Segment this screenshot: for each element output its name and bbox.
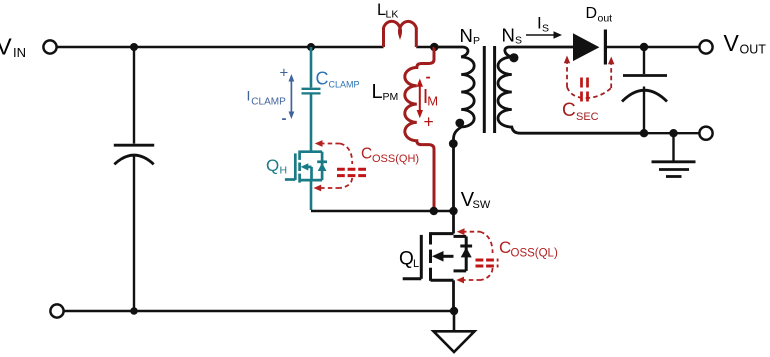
ground primary lead	[453, 311, 456, 331]
svg-text:H: H	[280, 165, 288, 177]
svg-text:-: -	[426, 69, 431, 86]
label CCLAMP (blue)	[316, 69, 360, 90]
QH body diode cathode bar	[317, 160, 327, 163]
QH source horizontal	[300, 179, 323, 182]
QL body diode triangle	[461, 247, 472, 257]
svg-text:Q: Q	[266, 156, 279, 175]
QH body arrow head	[301, 163, 309, 170]
svg-text:Q: Q	[399, 249, 414, 270]
QH body diode triangle	[318, 163, 327, 171]
ground primary (open triangle)	[434, 331, 475, 352]
COSS(QH) top dashed line	[320, 143, 340, 145]
COSS(QL) top arrow head	[457, 228, 465, 235]
node junction dot NP bottom	[449, 139, 458, 148]
node junction dot bottom input cap	[130, 307, 138, 315]
QL body arrow head	[432, 251, 444, 262]
QL diode branch bottom	[454, 269, 467, 272]
wire QL source lead	[452, 280, 455, 311]
current ICLAMP arrow (blue double headed)	[289, 74, 295, 119]
transistor QH (teal mosfet)	[285, 151, 327, 183]
CSEC right arrow line	[610, 63, 612, 88]
capacitor COUT top plate	[623, 74, 667, 77]
QL gate bar	[420, 235, 423, 279]
capacitance CSEC dashed arrows (dark red)	[567, 62, 611, 98]
svg-text:SEC: SEC	[576, 111, 599, 123]
COSS(QH) top arrow head	[315, 140, 323, 147]
svg-text:M: M	[427, 94, 438, 109]
diode Dout cathode bar	[604, 30, 607, 65]
svg-text:SW: SW	[473, 199, 491, 211]
capacitor CCLAMP plates (teal)	[302, 89, 321, 94]
node junction dot VSW	[449, 207, 457, 215]
inductor LLK coil	[384, 21, 417, 47]
CSEC left arrow line	[566, 62, 568, 87]
wire clamp branch top (teal)	[310, 47, 313, 88]
COSS(QH) bottom dashed line	[320, 187, 340, 189]
label NS	[502, 24, 523, 46]
svg-text:+: +	[424, 112, 434, 132]
svg-text:C: C	[499, 238, 511, 257]
svg-text:OSS(QH): OSS(QH)	[372, 153, 419, 165]
wire top rail after LLK coil	[416, 46, 434, 48]
capacitor CIN bottom lead	[133, 156, 135, 312]
transformer NS winding	[498, 47, 644, 133]
label NP	[460, 25, 481, 47]
wire bottom rail	[64, 310, 455, 312]
svg-text:V: V	[724, 30, 740, 56]
wire Dout to output node	[605, 46, 699, 48]
svg-text:L: L	[372, 81, 383, 103]
QH body arrow line	[304, 166, 312, 169]
label CSEC	[562, 100, 599, 123]
terminal VOUT top (open circle)	[699, 40, 712, 53]
node junction dot QL source	[450, 307, 458, 315]
capacitor COUT bottom lead	[643, 87, 645, 134]
svg-text:LK: LK	[386, 9, 399, 21]
diode Dout label	[586, 5, 613, 25]
ground secondary lead	[672, 133, 674, 161]
svg-text:CLAMP: CLAMP	[329, 80, 360, 90]
svg-text:OUT: OUT	[740, 42, 767, 56]
svg-text:+: +	[280, 64, 289, 81]
node junction dot LLK/LPM/NP	[430, 43, 439, 52]
current IM arrow (double headed)	[417, 79, 423, 119]
COSS(QL) top arc	[480, 232, 493, 253]
transformer NP winding	[435, 47, 475, 211]
svg-text:C: C	[361, 146, 372, 163]
label VSW	[461, 189, 491, 211]
svg-text:OSS(QL): OSS(QL)	[511, 248, 558, 260]
svg-text:V: V	[0, 34, 12, 60]
svg-text:-: -	[282, 110, 287, 127]
capacitor COUT top lead	[643, 47, 645, 74]
QL diode branch top	[454, 235, 467, 238]
svg-text:N: N	[460, 25, 473, 46]
transformer NP phase dot	[455, 119, 464, 128]
transistor QL label	[399, 249, 419, 271]
transformer core line 1	[483, 46, 486, 133]
QH channel segments	[298, 151, 301, 160]
svg-text:IN: IN	[13, 45, 26, 60]
QL body diode cathode bar	[460, 245, 472, 248]
CSEC left arrow head	[564, 56, 570, 64]
QH drain horizontal	[300, 150, 323, 153]
current IS label	[537, 13, 549, 34]
node junction dot secondary ground	[669, 129, 677, 137]
wire VSW rail	[311, 210, 454, 213]
transformer core line 2	[493, 46, 496, 133]
svg-text:N: N	[502, 24, 515, 45]
transistor QH label (teal)	[266, 156, 287, 177]
terminal VIN (open circle)	[43, 40, 56, 53]
ground secondary (3 bars)	[652, 162, 696, 177]
QH body connector	[310, 167, 313, 180]
QL drain horizontal	[431, 232, 454, 235]
wire QH source down (teal)	[310, 180, 313, 210]
diode Dout triangle	[573, 33, 599, 61]
QH gate lead	[285, 178, 295, 181]
QH body diode line	[321, 152, 324, 180]
COSS(QL) bottom arc	[481, 268, 493, 280]
svg-text:D: D	[586, 5, 598, 22]
QL gate lead	[403, 277, 422, 280]
current IS arrow	[526, 31, 562, 39]
inductor LLK label	[377, 1, 398, 21]
COSS(QH) top arc	[340, 144, 352, 165]
wire CCLAMP to QH drain (teal)	[310, 95, 313, 152]
node junction dot input cap	[130, 43, 138, 51]
label COSS(QL)	[499, 238, 558, 260]
label IM	[423, 86, 438, 108]
QL body diode line	[465, 236, 468, 271]
svg-text:I: I	[247, 88, 251, 104]
transistor QL (black mosfet)	[403, 232, 472, 281]
capacitance COSS(QL) plates (dashed)	[476, 260, 499, 266]
svg-text:C: C	[562, 100, 576, 121]
CSEC right arrow head	[608, 57, 614, 65]
wire QL drain lead	[452, 211, 455, 234]
transformer NS phase dot	[509, 53, 518, 62]
COSS(QH) bottom arrow head	[314, 185, 322, 192]
capacitor CIN curved plate	[114, 155, 153, 164]
COSS(QL) bottom arrow head	[456, 277, 464, 284]
node VIN label	[0, 34, 26, 61]
CSEC bottom arc	[567, 87, 611, 98]
capacitor CIN wire top lead	[133, 47, 135, 144]
wire secondary bottom rail	[644, 132, 700, 134]
svg-text:L: L	[413, 258, 419, 270]
capacitance COSS(QH) dashed arrows (dark red)	[320, 144, 352, 189]
wire top rail left	[57, 46, 384, 48]
node junction dot clamp branch	[307, 43, 315, 51]
QL channel segments	[429, 232, 432, 244]
QL source horizontal	[431, 279, 454, 282]
COSS(QL) top dashed line	[462, 231, 480, 233]
inductor LPM label	[372, 81, 399, 103]
capacitor CIN top plate	[114, 144, 154, 147]
terminal VOUT bottom (open circle)	[699, 127, 712, 140]
COSS(QL) bottom dashed line	[461, 279, 481, 281]
node junction dot output top	[640, 43, 648, 51]
label ICLAMP	[247, 88, 287, 108]
svg-text:PM: PM	[383, 91, 399, 103]
svg-text:out: out	[598, 13, 613, 25]
svg-text:S: S	[515, 34, 522, 46]
inductor LPM coil	[405, 47, 434, 211]
svg-text:CLAMP: CLAMP	[251, 97, 286, 108]
svg-text:C: C	[316, 69, 329, 89]
capacitance CSEC plates (dashed vertical)	[582, 78, 588, 104]
capacitor COUT curved plate	[622, 90, 667, 101]
capacitance COSS(QH) plates (dashed)	[337, 169, 366, 175]
COSS(QH) bottom arc	[340, 178, 352, 188]
svg-text:P: P	[473, 35, 480, 47]
svg-text:S: S	[542, 22, 549, 34]
QH gate bar	[294, 153, 297, 180]
QL body arrow line	[443, 255, 454, 258]
node junction dot LPM bottom	[430, 207, 438, 215]
terminal bottom-left (open circle)	[50, 304, 63, 317]
node junction dot output bottom	[640, 129, 648, 137]
label VOUT	[724, 30, 767, 57]
label COSS(QH)	[361, 146, 419, 166]
capacitance COSS(QL) dashed arrows	[461, 232, 493, 280]
